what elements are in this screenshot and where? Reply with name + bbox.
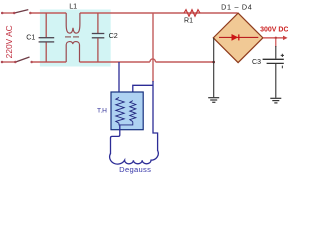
degauss coil (110, 151, 159, 165)
wire: C3 to ground (275, 64, 277, 98)
EMI filter highlight box (40, 10, 111, 67)
node: C3 tap on output (275, 37, 277, 39)
wire: bottom AC line from switch (2, 61, 15, 63)
svg-text:R1: R1 (184, 18, 193, 25)
wire: thermistor output lead to degauss coil (111, 125, 120, 154)
switch S1a blade (top) (14, 10, 28, 13)
wire: bottom line hop to bridge ground node (156, 61, 214, 63)
node: switch top contacts (1, 12, 4, 15)
resistor R1 (184, 10, 200, 17)
C3 polarity plus (281, 54, 284, 57)
capacitor C2 (97, 13, 99, 33)
svg-text:C3: C3 (252, 59, 261, 66)
wire: top AC line from switch to C1/L1 (2, 12, 14, 14)
wire: thermistor bottom connector (119, 122, 133, 125)
wire: hop over vertical at x=152.8 (150, 59, 156, 62)
inductor L1 (common-mode choke) top winding (66, 13, 80, 33)
diode symbol inside bridge (219, 36, 258, 38)
svg-text:Degauss: Degauss (119, 165, 151, 174)
wire: DC output with arrow (263, 37, 284, 39)
thermistor box (111, 92, 143, 130)
inductor L1 bottom winding (66, 42, 79, 62)
wire: navy vertical to degauss right lead (153, 81, 158, 151)
svg-text:C2: C2 (109, 31, 118, 40)
svg-text:D1 – D4: D1 – D4 (221, 3, 252, 12)
wire: navy from bottom AC line to thermistor left lead (118, 62, 120, 97)
thermistor T.H left element (116, 97, 124, 123)
switch S1b blade (bottom) (16, 57, 30, 62)
svg-text:C1: C1 (26, 33, 35, 42)
wire: bottom line L1 to hop (80, 61, 150, 63)
capacitor C1 (45, 13, 47, 37)
bridge rectifier D1-D4 body (213, 13, 263, 63)
svg-text:300V DC: 300V DC (260, 27, 288, 34)
wire: bottom line switch to L1 (32, 61, 66, 63)
L1 core dashes (65, 36, 71, 38)
ground under bridge (208, 97, 219, 99)
wire: navy branch to thermistor right lead (133, 85, 153, 100)
ground under C3 (270, 97, 281, 99)
svg-text:T.H: T.H (97, 108, 107, 115)
wire: top line switch to L1 left leg (30, 12, 66, 14)
wire: bridge left vertex to ground (213, 38, 215, 97)
wire: red vertical from top line to degauss branch (152, 13, 154, 82)
thermistor T.H right element (130, 101, 136, 122)
C3 polarity minus tick (281, 66, 283, 69)
svg-text:L1: L1 (69, 1, 77, 10)
capacitor C3 (electrolytic) (275, 38, 277, 47)
svg-text:220V AC: 220V AC (4, 25, 14, 58)
node: switch bottom contacts (1, 61, 4, 64)
wire: top line L1 right leg to bridge top vertex (80, 12, 238, 14)
node: bottom line joins ground wire (212, 61, 215, 64)
